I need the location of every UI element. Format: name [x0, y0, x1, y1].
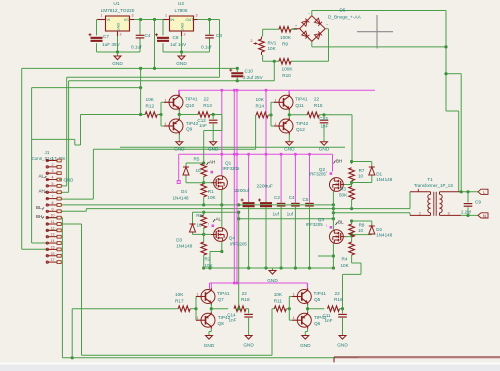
- svg-text:1N4148: 1N4148: [173, 196, 190, 201]
- wire driver1 output: [178, 110, 198, 119]
- potentiometer RV1: [251, 37, 277, 56]
- svg-text:Q10: Q10: [185, 103, 194, 108]
- capacitor C9: [461, 192, 481, 216]
- ground U1: [112, 52, 123, 66]
- resistor R16: [328, 291, 343, 312]
- ground cap bank: [267, 268, 278, 283]
- svg-text:10K: 10K: [146, 97, 155, 102]
- svg-text:GND: GND: [204, 343, 215, 348]
- resistor R3: [339, 187, 354, 209]
- capacitor C1: [234, 188, 254, 268]
- resistor R1: [201, 184, 217, 205]
- svg-text:R4: R4: [342, 257, 348, 262]
- svg-text:IRF3205: IRF3205: [306, 222, 323, 227]
- svg-text:TIP41: TIP41: [217, 291, 230, 296]
- wire R11 node: [286, 297, 293, 321]
- svg-text:R17: R17: [175, 299, 184, 304]
- wire Q2 source: [332, 191, 334, 212]
- svg-text:LM7812_TO220: LM7812_TO220: [101, 8, 135, 13]
- wire U1 gnd: [97, 36, 141, 54]
- capacitor C8: [155, 20, 187, 53]
- svg-text:2.2uf: 2.2uf: [461, 209, 472, 214]
- svg-text:RV1: RV1: [268, 41, 277, 46]
- wire pot output to J1: [59, 79, 274, 192]
- label BL: [36, 205, 44, 210]
- svg-text:10K: 10K: [256, 97, 265, 102]
- resistor R5: [194, 157, 207, 177]
- wire R14 input row: [93, 115, 256, 149]
- wire phase C rail: [332, 211, 410, 215]
- svg-text:1: 1: [275, 122, 277, 126]
- resistor R2: [201, 242, 214, 268]
- wire AL gate drive vertical: [204, 211, 241, 311]
- svg-text:1nF: 1nF: [199, 123, 207, 128]
- capacitor C2: [273, 195, 286, 268]
- transistor Q7: [196, 288, 230, 305]
- svg-text:8: 8: [52, 201, 54, 205]
- wire phase A rail: [59, 203, 335, 206]
- svg-text:10K: 10K: [268, 46, 277, 51]
- label GND pin4: [59, 177, 73, 182]
- wire aux row: [32, 86, 143, 243]
- wire Q10 collector: [178, 90, 180, 94]
- svg-text:Q7: Q7: [218, 297, 225, 302]
- svg-text:3: 3: [196, 14, 198, 18]
- capacitor C6: [257, 183, 273, 268]
- wire +12V drop: [154, 20, 156, 69]
- wire R10 out: [291, 60, 329, 62]
- capacitor C5: [303, 197, 314, 268]
- svg-text:D4: D4: [181, 189, 187, 194]
- svg-text:C2: C2: [274, 195, 280, 200]
- wire R17 node: [190, 297, 198, 321]
- svg-text:22: 22: [314, 97, 320, 102]
- wire pot bottom to R10: [263, 55, 279, 63]
- svg-text:10: 10: [358, 173, 364, 178]
- svg-text:R5: R5: [194, 157, 200, 162]
- svg-text:1nF: 1nF: [325, 318, 333, 323]
- resistor R4: [341, 239, 362, 309]
- svg-text:1: 1: [293, 316, 295, 320]
- svg-text:22: 22: [242, 291, 248, 296]
- wire Q3 drain: [332, 213, 334, 230]
- svg-text:12: 12: [51, 226, 55, 230]
- svg-text:GND: GND: [64, 177, 74, 182]
- connector J1: [32, 150, 66, 264]
- diode D3: [176, 224, 195, 249]
- svg-text:~: ~: [308, 11, 310, 15]
- wire highlighted Q1 gate drop: [221, 90, 223, 175]
- wire R13 out loop: [204, 113, 222, 163]
- mosfet Q3: [306, 217, 346, 243]
- wire pin7 riser: [59, 149, 93, 199]
- svg-text:C5: C5: [303, 197, 309, 202]
- svg-text:C13: C13: [319, 116, 328, 121]
- svg-text:R9: R9: [282, 42, 288, 47]
- svg-text:AH: AH: [39, 189, 45, 194]
- svg-text:R1: R1: [208, 189, 214, 194]
- svg-text:1: 1: [293, 293, 295, 297]
- svg-text:C9: C9: [475, 199, 481, 204]
- svg-text:R10: R10: [282, 73, 291, 78]
- capacitor C10: [229, 68, 263, 80]
- svg-text:1N4148: 1N4148: [376, 177, 393, 182]
- svg-text:Q12: Q12: [296, 127, 305, 132]
- svg-text:TIP41: TIP41: [185, 97, 198, 102]
- svg-text:1: 1: [52, 157, 54, 161]
- svg-text:14: 14: [51, 239, 55, 243]
- wire Q4 source: [210, 242, 223, 269]
- capacitor C4b: [287, 195, 300, 268]
- svg-text:IN: IN: [170, 17, 174, 22]
- svg-text:6: 6: [52, 188, 54, 192]
- svg-text:R13: R13: [203, 103, 212, 108]
- wire R17 input: [72, 309, 178, 358]
- svg-text:GND: GND: [267, 278, 278, 283]
- svg-text:3: 3: [132, 14, 134, 18]
- wire highlighted vertical pair: [234, 90, 237, 283]
- wire L node: [460, 190, 478, 193]
- svg-text:10: 10: [197, 223, 203, 228]
- ground C13: [319, 138, 330, 152]
- wire driver2 output: [288, 110, 308, 119]
- capacitor C4: [131, 20, 151, 53]
- svg-text:R18: R18: [241, 297, 250, 302]
- svg-text:100K: 100K: [282, 67, 294, 72]
- svg-text:R8: R8: [359, 223, 365, 228]
- svg-text:1: 1: [197, 316, 199, 320]
- wire highlighted mid rail: [177, 153, 332, 184]
- transformer T1: [410, 177, 461, 216]
- svg-text:C4: C4: [145, 33, 151, 38]
- svg-text:D5: D5: [340, 8, 346, 13]
- svg-text:1nF: 1nF: [229, 317, 237, 322]
- ground C11: [337, 332, 348, 348]
- wire R15 out: [319, 113, 352, 161]
- svg-text:TIP42: TIP42: [296, 121, 309, 126]
- svg-text:C4: C4: [289, 195, 295, 200]
- svg-text:100K: 100K: [280, 35, 292, 40]
- svg-text:N: N: [483, 213, 486, 218]
- resistor R14: [256, 97, 269, 118]
- wire R12 input: [75, 113, 145, 145]
- diode D2: [369, 226, 393, 238]
- svg-text:1: 1: [165, 14, 167, 18]
- svg-text:f: f: [208, 223, 209, 227]
- capacitor C13: [319, 115, 328, 138]
- wire highlighted drop C6: [265, 90, 267, 154]
- svg-text:16: 16: [51, 252, 55, 256]
- svg-text:GND: GND: [243, 343, 254, 348]
- svg-text:C8: C8: [173, 35, 179, 40]
- svg-text:GND: GND: [174, 147, 185, 152]
- wire N node: [461, 214, 478, 217]
- wire Q11 collector: [288, 90, 290, 94]
- svg-text:22: 22: [204, 97, 210, 102]
- resistor R11: [274, 292, 287, 312]
- wire long mid rail: [120, 146, 345, 148]
- wire +12V to J1: [22, 67, 239, 250]
- wire phase D rail: [237, 217, 335, 220]
- svg-text:Q11: Q11: [295, 103, 304, 108]
- sheet border: [334, 357, 500, 364]
- svg-text:f: f: [326, 224, 327, 228]
- svg-text:Q6: Q6: [314, 321, 321, 326]
- svg-text:AL: AL: [216, 217, 222, 222]
- mosfet Q1: [211, 161, 240, 190]
- resistor R17: [175, 292, 190, 312]
- svg-text:C10: C10: [245, 69, 254, 74]
- svg-text:TIP41: TIP41: [314, 291, 327, 296]
- transistor Q11: [274, 94, 308, 111]
- wire bridge bottom out: [312, 41, 446, 47]
- wire drop to R12 node: [140, 68, 142, 114]
- svg-text:Q9: Q9: [186, 127, 193, 132]
- svg-text:10K: 10K: [175, 292, 184, 297]
- svg-text:GND: GND: [319, 147, 330, 152]
- svg-text:2: 2: [52, 163, 54, 167]
- svg-text:1: 1: [275, 98, 277, 102]
- svg-text:f: f: [326, 170, 327, 174]
- label AL: [39, 174, 47, 179]
- svg-text:15: 15: [51, 245, 55, 249]
- svg-text:GND: GND: [337, 343, 348, 348]
- diode D4: [173, 167, 190, 201]
- svg-text:R12: R12: [146, 104, 155, 109]
- wire phase B rail: [59, 192, 410, 212]
- wire R14 node: [268, 102, 274, 126]
- wire Q7 collector: [210, 283, 212, 288]
- wire transformer feed right: [444, 11, 461, 192]
- wire Q4 drain: [221, 205, 223, 228]
- wire +5V drop: [219, 20, 221, 78]
- transistor Q8: [196, 312, 231, 329]
- svg-text:1nF: 1nF: [321, 123, 329, 128]
- svg-text:IRF3205: IRF3205: [230, 242, 247, 247]
- ground Q6: [300, 329, 311, 348]
- svg-text:3: 3: [52, 169, 54, 173]
- svg-text:IRF3205: IRF3205: [309, 171, 326, 176]
- svg-text:1N4148: 1N4148: [376, 233, 393, 238]
- wire driver3 output: [210, 304, 229, 312]
- capacitor C11: [323, 307, 347, 331]
- capacitor C12: [197, 115, 217, 138]
- cursor crosshair: [357, 15, 393, 49]
- wire Q4 gate cluster: [193, 211, 211, 242]
- wire jog route: [32, 139, 75, 145]
- svg-text:R14: R14: [256, 104, 265, 109]
- wire +5V to J1: [59, 77, 220, 186]
- svg-text:R2: R2: [205, 257, 211, 262]
- svg-text:11: 11: [51, 220, 55, 224]
- svg-text:R6: R6: [196, 213, 202, 218]
- resistor R12: [145, 97, 157, 117]
- resistor R10: [279, 59, 293, 79]
- svg-text:C3: C3: [216, 33, 222, 38]
- label AH gate: [207, 160, 216, 166]
- svg-text:GND: GND: [180, 22, 185, 31]
- capacitor C14: [227, 307, 253, 331]
- wire Q1 gate cluster: [186, 161, 211, 184]
- svg-text:10K: 10K: [207, 195, 216, 200]
- svg-text:U2: U2: [178, 1, 184, 7]
- svg-text:10K: 10K: [205, 263, 214, 268]
- ground U2: [176, 52, 187, 66]
- gate mark Q4: [208, 223, 214, 228]
- svg-text:2: 2: [419, 212, 421, 216]
- svg-text:10K: 10K: [274, 292, 283, 297]
- resistor R18: [234, 291, 250, 312]
- svg-text:R11: R11: [274, 299, 283, 304]
- svg-text:3: 3: [447, 212, 449, 216]
- svg-text:7: 7: [52, 195, 54, 199]
- svg-text:2.2uf 25V: 2.2uf 25V: [243, 75, 264, 80]
- wire U2 gnd: [163, 36, 210, 54]
- svg-text:1: 1: [197, 293, 199, 297]
- regulator U2: [163, 1, 198, 37]
- ground Q8: [204, 329, 215, 348]
- svg-text:1: 1: [165, 98, 167, 102]
- svg-text:D2: D2: [376, 227, 382, 232]
- wire pot node drop: [273, 61, 275, 81]
- svg-text:Transformer_1P_1S: Transformer_1P_1S: [414, 183, 453, 188]
- svg-text:2: 2: [120, 33, 122, 37]
- flag N: [478, 213, 488, 219]
- capacitor C7: [89, 20, 121, 53]
- svg-text:OUT: OUT: [185, 17, 194, 22]
- resistor R6: [196, 213, 206, 228]
- svg-text:10K: 10K: [341, 263, 350, 268]
- wire Q2 gate cluster: [344, 160, 372, 187]
- transistor Q5: [292, 288, 326, 305]
- svg-text:GND: GND: [300, 343, 311, 348]
- svg-text:1uf 16V: 1uf 16V: [170, 42, 187, 47]
- wire bridge top out: [312, 11, 446, 16]
- svg-text:2: 2: [251, 39, 253, 43]
- transistor Q10: [164, 94, 198, 111]
- svg-text:TIP41: TIP41: [295, 97, 308, 102]
- svg-text:2: 2: [184, 33, 186, 37]
- svg-text:4: 4: [52, 176, 54, 180]
- svg-text:Q4: Q4: [229, 236, 236, 241]
- svg-text:1N4148: 1N4148: [176, 244, 193, 249]
- svg-text:BH: BH: [336, 158, 342, 163]
- svg-text:J1: J1: [45, 150, 50, 155]
- flag L: [478, 189, 488, 195]
- resistor R9: [279, 27, 292, 47]
- svg-text:10: 10: [51, 214, 55, 218]
- svg-text:Q8: Q8: [218, 321, 225, 326]
- svg-text:R3: R3: [340, 187, 346, 192]
- svg-text:C7: C7: [103, 34, 109, 39]
- svg-text:R16: R16: [334, 297, 343, 302]
- svg-text:13: 13: [51, 233, 55, 237]
- svg-text:BL: BL: [36, 205, 42, 210]
- svg-text:VO: VO: [124, 17, 130, 22]
- svg-text:2200uf: 2200uf: [234, 188, 249, 194]
- svg-text:T1: T1: [427, 177, 433, 182]
- ground Q9: [174, 135, 185, 152]
- svg-text:0.1uf: 0.1uf: [201, 45, 212, 50]
- mosfet Q4: [211, 228, 248, 247]
- svg-text:1: 1: [101, 14, 103, 18]
- diode bridge D5: [292, 8, 362, 42]
- svg-text:~: ~: [308, 38, 310, 42]
- svg-text:IRF3205: IRF3205: [223, 166, 240, 171]
- svg-text:GND: GND: [116, 22, 121, 31]
- label BH gate: [334, 158, 343, 163]
- label BH: [36, 214, 44, 219]
- mosfet Q2: [309, 167, 346, 191]
- svg-text:D3: D3: [176, 238, 182, 243]
- regulator U1: [98, 1, 135, 37]
- diode D1: [369, 167, 393, 182]
- label AH: [39, 189, 47, 194]
- svg-text:VI: VI: [106, 17, 110, 22]
- gate mark Q3: [326, 224, 332, 229]
- wire Q5 collector: [307, 283, 309, 288]
- transistor Q9: [164, 118, 199, 135]
- svg-text:1: 1: [165, 122, 167, 126]
- wire Q1 source: [221, 190, 223, 205]
- svg-text:U1: U1: [113, 1, 119, 7]
- label BL gate: [336, 220, 345, 225]
- transistor Q6: [292, 312, 327, 329]
- wire bridge right leg: [325, 29, 328, 62]
- svg-text:GND: GND: [176, 61, 187, 66]
- svg-text:AL: AL: [39, 174, 45, 179]
- svg-text:GND: GND: [284, 147, 295, 152]
- capacitor C3: [201, 20, 222, 53]
- resistor R7: [349, 168, 365, 181]
- svg-text:1uf: 1uf: [287, 212, 294, 217]
- wire GND cap rail: [202, 266, 335, 269]
- wire R9 out: [291, 28, 297, 30]
- wire highlighted top rail: [179, 89, 375, 96]
- ground Q12: [284, 135, 295, 152]
- svg-text:R15: R15: [314, 103, 323, 108]
- wire pin11 to bottom: [46, 224, 272, 355]
- svg-text:D_Bnoge_+-AA: D_Bnoge_+-AA: [328, 15, 362, 20]
- window bottom strip: [0, 362, 500, 371]
- svg-text:BL: BL: [338, 220, 344, 225]
- svg-text:GND: GND: [208, 147, 219, 152]
- ground C12: [208, 138, 219, 152]
- wire +12V rail top: [97, 18, 220, 21]
- svg-text:GND: GND: [112, 61, 123, 66]
- transistor Q12: [274, 118, 309, 135]
- wire R11 input: [272, 309, 274, 356]
- resistor R15: [307, 97, 323, 118]
- wire highlighted cap drops: [249, 154, 310, 202]
- gate mark Q2: [326, 170, 332, 175]
- wire highlighted bottom rail: [210, 282, 308, 290]
- wire pin12 stub: [46, 229, 57, 231]
- resistor R13: [198, 97, 212, 118]
- wire Q3 source: [318, 244, 335, 269]
- svg-text:5: 5: [52, 182, 54, 186]
- svg-text:10: 10: [358, 228, 364, 233]
- svg-text:0.1uf: 0.1uf: [131, 45, 142, 50]
- svg-text:BH: BH: [36, 214, 42, 219]
- svg-text:2200uF: 2200uF: [257, 183, 273, 189]
- wire R12 node: [157, 102, 164, 126]
- svg-text:9: 9: [52, 207, 54, 211]
- wire pot top: [263, 29, 279, 36]
- svg-text:L7805: L7805: [174, 8, 187, 13]
- svg-text:D1: D1: [376, 172, 382, 177]
- wire driver4 output: [306, 304, 324, 312]
